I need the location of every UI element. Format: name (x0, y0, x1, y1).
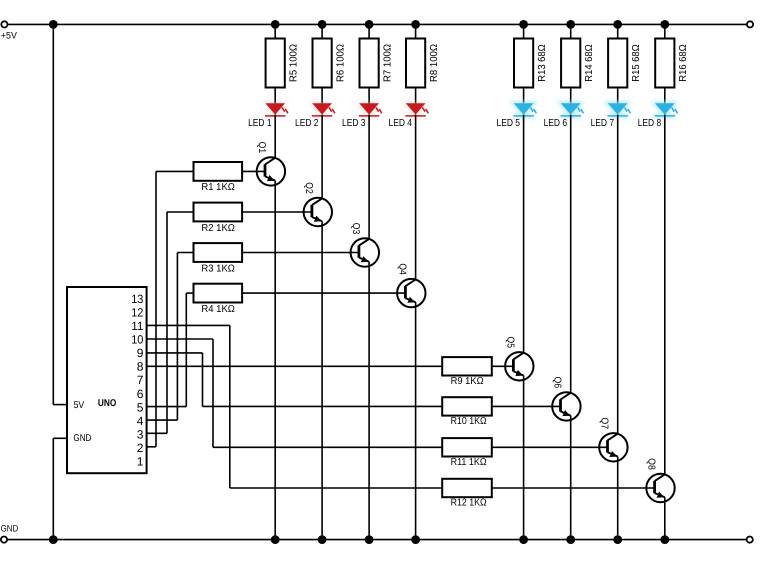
svg-text:2: 2 (137, 441, 144, 455)
svg-text:GND: GND (1, 524, 19, 534)
svg-text:R1 1KΩ: R1 1KΩ (201, 182, 235, 193)
svg-text:LED 7: LED 7 (591, 118, 615, 129)
svg-text:R8 100Ω: R8 100Ω (429, 44, 440, 82)
svg-text:R5 100Ω: R5 100Ω (289, 44, 300, 82)
svg-text:Q5: Q5 (504, 337, 515, 349)
svg-text:LED 4: LED 4 (389, 118, 413, 129)
svg-text:7: 7 (137, 373, 144, 387)
svg-text:9: 9 (137, 346, 144, 360)
svg-text:13: 13 (131, 292, 143, 306)
svg-text:R14 68Ω: R14 68Ω (584, 44, 595, 82)
svg-text:5: 5 (137, 400, 144, 414)
svg-text:LED 6: LED 6 (544, 118, 568, 129)
svg-text:LED 2: LED 2 (295, 118, 319, 129)
svg-text:R7 100Ω: R7 100Ω (383, 44, 394, 82)
svg-text:Q1: Q1 (256, 142, 267, 154)
svg-text:Q8: Q8 (646, 458, 657, 470)
svg-text:12: 12 (131, 306, 143, 320)
svg-text:3: 3 (137, 428, 144, 442)
svg-text:R9 1KΩ: R9 1KΩ (451, 376, 484, 387)
svg-text:LED 3: LED 3 (342, 118, 366, 129)
svg-text:+5V: +5V (1, 30, 18, 41)
svg-text:R10 1KΩ: R10 1KΩ (451, 416, 487, 427)
svg-text:R4 1KΩ: R4 1KΩ (201, 304, 235, 315)
svg-text:5V: 5V (74, 400, 85, 411)
svg-text:GND: GND (73, 433, 91, 444)
svg-text:Q2: Q2 (303, 182, 314, 194)
svg-text:R15 68Ω: R15 68Ω (631, 44, 642, 82)
svg-text:Q7: Q7 (599, 418, 610, 430)
svg-text:R16 68Ω: R16 68Ω (678, 44, 689, 82)
svg-text:LED 8: LED 8 (638, 118, 662, 129)
svg-text:R11 1KΩ: R11 1KΩ (451, 457, 487, 468)
svg-text:1: 1 (137, 455, 144, 469)
svg-text:R13 68Ω: R13 68Ω (537, 44, 548, 82)
svg-text:4: 4 (137, 414, 144, 428)
svg-text:Q3: Q3 (350, 223, 361, 235)
svg-text:LED 1: LED 1 (248, 118, 272, 129)
svg-text:11: 11 (131, 319, 144, 333)
svg-text:R6 100Ω: R6 100Ω (336, 44, 347, 82)
svg-text:Q4: Q4 (396, 263, 407, 275)
svg-text:R2 1KΩ: R2 1KΩ (201, 223, 235, 234)
svg-text:LED 5: LED 5 (497, 118, 521, 129)
svg-text:Q6: Q6 (552, 377, 563, 389)
svg-text:6: 6 (137, 387, 144, 401)
svg-text:8: 8 (137, 360, 144, 374)
svg-text:UNO: UNO (98, 398, 117, 409)
svg-text:10: 10 (131, 333, 143, 347)
svg-text:R12 1KΩ: R12 1KΩ (451, 498, 487, 509)
svg-text:R3 1KΩ: R3 1KΩ (201, 263, 235, 274)
